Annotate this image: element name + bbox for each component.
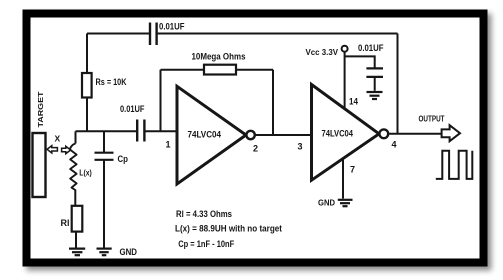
svg-text:0.01UF: 0.01UF <box>358 43 384 53</box>
svg-text:L(x) = 88.9UH with no target: L(x) = 88.9UH with no target <box>175 224 283 235</box>
svg-text:Rl = 4.33 Ohms: Rl = 4.33 Ohms <box>176 209 232 220</box>
wire coil to Rl <box>74 190 76 206</box>
svg-text:Rs = 10K: Rs = 10K <box>96 77 127 87</box>
wire node bend down to coil <box>75 131 77 143</box>
wire top horizontal right of C1 <box>157 33 397 35</box>
wire Vcc vertical to pin14 <box>344 52 346 109</box>
wire feedback right vertical <box>272 70 274 135</box>
target plate box <box>33 133 46 197</box>
wire U2 output to arrow <box>388 133 441 135</box>
resistor R2 10Mega <box>204 65 236 75</box>
svg-text:Cp: Cp <box>118 154 129 165</box>
svg-text:GND: GND <box>318 197 335 207</box>
svg-text:3: 3 <box>298 142 303 152</box>
svg-text:1: 1 <box>166 140 171 150</box>
svg-text:L(x): L(x) <box>79 168 92 178</box>
svg-text:2: 2 <box>253 144 258 154</box>
U2 output bubble <box>379 129 388 138</box>
arrow right (gap indicator) <box>62 146 71 153</box>
wire Rs bottom to node <box>86 98 88 132</box>
wire Cp tap down <box>103 131 105 152</box>
wire top horizontal left of C1 <box>87 33 149 35</box>
svg-text:X: X <box>55 133 61 143</box>
svg-text:OUTPUT: OUTPUT <box>419 115 445 124</box>
inductor L(x) coil <box>70 143 76 190</box>
OUTPUT block arrow <box>442 125 460 141</box>
capacitor C2 input 0.01UF plates <box>137 120 144 142</box>
U1 output bubble <box>246 131 254 139</box>
svg-text:7: 7 <box>350 165 355 175</box>
svg-text:Vcc 3.3V: Vcc 3.3V <box>306 47 339 57</box>
wire top feedback right vertical <box>397 34 399 134</box>
op-amp U2 74LVC04 triangle <box>312 85 380 181</box>
capacitor Cp plates <box>95 153 114 160</box>
ground under C4 <box>367 92 383 99</box>
ground pin7 <box>338 200 353 206</box>
arrow left (gap indicator) <box>47 146 57 153</box>
svg-text:4: 4 <box>392 140 397 150</box>
svg-text:Cp = 1nF - 10nF: Cp = 1nF - 10nF <box>178 239 234 250</box>
wire Cp bottom to ground <box>103 160 105 248</box>
wire pin7 to ground <box>342 159 344 199</box>
wire feedback horizontal right of R2 <box>236 69 273 71</box>
wire node A horizontal left of C2 <box>76 130 137 132</box>
op-amp U1 74LVC04 triangle <box>177 86 246 184</box>
svg-text:10Mega Ohms: 10Mega Ohms <box>192 52 246 63</box>
ground under Rl <box>69 249 85 256</box>
svg-text:0.01UF: 0.01UF <box>159 22 185 32</box>
ground under Cp <box>97 249 112 256</box>
svg-text:0.01UF: 0.01UF <box>120 104 145 114</box>
wire feedback left vertical <box>160 70 162 132</box>
svg-text:14: 14 <box>349 97 358 107</box>
square wave symbol <box>436 151 473 179</box>
svg-text:TARGET: TARGET <box>36 91 45 127</box>
wire node between C2 and U1 input <box>145 130 177 132</box>
svg-text:Rl: Rl <box>61 218 70 228</box>
wire C4 bottom to ground <box>374 77 376 91</box>
capacitor C1 top 0.01UF plates <box>150 23 157 46</box>
wire feedback horizontal left of R2 <box>161 69 205 71</box>
wire top-left vertical to Rs <box>86 34 88 74</box>
capacitor C4 decoupling plates <box>366 68 383 77</box>
svg-text:74LVC04: 74LVC04 <box>188 130 222 140</box>
wire U1 output to U2 input <box>255 134 312 136</box>
svg-text:74LVC04: 74LVC04 <box>322 129 354 139</box>
wire Vcc branch to C4 <box>345 56 375 67</box>
svg-text:GND: GND <box>120 247 138 258</box>
wire Rl to ground <box>75 232 77 248</box>
resistor Rl <box>72 206 83 232</box>
Vcc terminal circle <box>342 46 348 52</box>
resistor Rs <box>82 73 92 98</box>
